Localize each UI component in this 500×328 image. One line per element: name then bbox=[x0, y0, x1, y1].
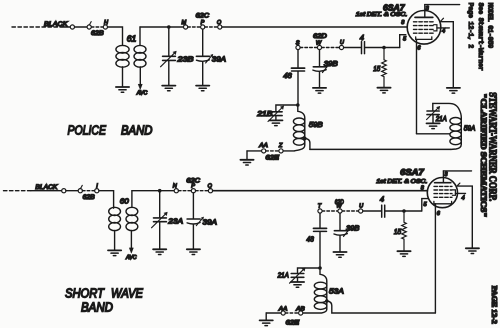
svg-text:U: U bbox=[359, 203, 364, 209]
wire: 53A tap to pin 6 bus bbox=[327, 301, 436, 313]
wire bbox=[75, 26, 88, 28]
switch 62D contact U bbox=[359, 203, 365, 213]
svg-text:21A: 21A bbox=[435, 114, 447, 123]
switch 62C contact P bbox=[191, 184, 195, 193]
wire: dashed M-P bbox=[188, 26, 201, 28]
svg-text:6: 6 bbox=[417, 45, 421, 51]
ground (62E) bbox=[240, 151, 253, 165]
page number PAGE 12-2 (rotated) bbox=[490, 286, 499, 324]
capacitor 4 bbox=[360, 33, 365, 53]
svg-text:BLACK: BLACK bbox=[35, 184, 58, 191]
wire: antenna lead-in (dashed) bbox=[12, 26, 62, 28]
svg-text:21B: 21B bbox=[256, 109, 272, 118]
ground (62E short wave) bbox=[260, 313, 273, 326]
pin 4 stub bbox=[437, 28, 449, 35]
switch 62C contact O bbox=[217, 20, 222, 29]
ground (pin 1) bbox=[447, 88, 460, 93]
wire: antenna lead-in (dashed) bbox=[4, 190, 31, 192]
svg-text:See Stewart-Warner: See Stewart-Warner bbox=[477, 3, 484, 71]
label 62D bbox=[313, 34, 327, 40]
wire: ground to AA bbox=[266, 312, 281, 314]
svg-text:4: 4 bbox=[462, 195, 465, 201]
wire: antenna solid segment bbox=[62, 26, 70, 28]
node: junction 23B bbox=[167, 25, 171, 29]
node: tap on 59B bbox=[303, 137, 307, 141]
label 62E bbox=[286, 320, 301, 326]
svg-text:BLACK: BLACK bbox=[44, 21, 68, 28]
wire: secondary top to switch M bbox=[140, 26, 184, 28]
ground (23A) bbox=[153, 249, 166, 254]
svg-text:62C: 62C bbox=[196, 13, 210, 19]
wire: dashed S-W bbox=[300, 47, 317, 49]
svg-text:BAND: BAND bbox=[121, 124, 153, 138]
wire: oscillator bus 59B tap to 59A bottom bbox=[310, 148, 451, 150]
coil 60 primary bbox=[109, 207, 121, 250]
svg-text:P: P bbox=[201, 20, 205, 26]
label 6SA7 bbox=[400, 167, 425, 177]
svg-text:4: 4 bbox=[442, 29, 445, 35]
pin 3 label and wire bbox=[443, 171, 471, 178]
coil 59A bbox=[450, 118, 475, 150]
svg-text:4: 4 bbox=[360, 33, 364, 42]
wire: pin 5 connection bbox=[422, 199, 429, 211]
svg-text:WAVE: WAVE bbox=[111, 286, 144, 300]
wire: Z to 59B bottom bbox=[283, 150, 294, 152]
label 1st DET & OSC bbox=[356, 12, 408, 18]
wire: dashed W-U bbox=[342, 210, 359, 212]
svg-text:S: S bbox=[296, 40, 300, 46]
switch 62E contact AA bbox=[278, 307, 288, 316]
wire: dashed N-P bbox=[178, 190, 191, 192]
wire bbox=[66, 190, 78, 192]
switch 62B contact J bbox=[87, 22, 91, 29]
switch 62C contact N bbox=[173, 183, 179, 192]
wire: junction to 21B bbox=[276, 105, 298, 111]
capacitor 21B (variable) bbox=[256, 106, 284, 122]
svg-text:62E: 62E bbox=[286, 320, 301, 326]
label 1st DET & OSC bbox=[376, 179, 427, 185]
ground (15) bbox=[377, 88, 390, 93]
svg-text:53A: 53A bbox=[329, 287, 344, 296]
node: junction 48/21A/53A bbox=[318, 266, 322, 270]
wire: capacitor 4 to pin 5 riser bbox=[365, 47, 400, 49]
svg-text:AB: AB bbox=[295, 307, 305, 313]
note Page 12-1, 2 (rotated) bbox=[467, 3, 474, 49]
wire: dashed J-I bbox=[82, 190, 94, 192]
label POLICE BAND bbox=[68, 124, 153, 138]
label BLACK bbox=[35, 184, 58, 191]
switch 62E contact AB bbox=[295, 307, 305, 316]
svg-text:H: H bbox=[104, 20, 109, 26]
svg-text:15: 15 bbox=[394, 227, 402, 236]
switch 62E contact AA bbox=[258, 143, 268, 153]
capacitor 21A (variable) bbox=[427, 103, 462, 122]
svg-text:59A: 59A bbox=[464, 124, 476, 133]
wire: 59B tap down to long bus bbox=[305, 138, 310, 149]
switch 62D contact U bbox=[339, 40, 345, 50]
svg-text:21A: 21A bbox=[277, 270, 289, 279]
switch 62B contact I bbox=[95, 183, 99, 192]
coil 61 primary bbox=[116, 45, 129, 86]
resistor 15 bbox=[373, 48, 386, 88]
svg-text:MODEL 01-859: MODEL 01-859 bbox=[487, 3, 494, 49]
svg-text:AVC: AVC bbox=[136, 91, 148, 97]
svg-text:6: 6 bbox=[437, 211, 441, 217]
svg-text:23B: 23B bbox=[176, 55, 193, 64]
label BLACK bbox=[44, 21, 68, 28]
label 62C bbox=[186, 179, 200, 185]
label SHORT WAVE BAND bbox=[65, 286, 144, 314]
wire: U to capacitor 4 bbox=[344, 47, 361, 49]
capacitor 48 bbox=[306, 213, 326, 268]
svg-text:Q: Q bbox=[208, 183, 213, 189]
svg-text:5: 5 bbox=[403, 36, 407, 42]
capacitor 4 bbox=[380, 195, 385, 218]
node: junction 23A bbox=[158, 189, 162, 193]
label 60 bbox=[120, 197, 130, 206]
coil 53A bbox=[303, 268, 344, 313]
capacitor 23B (variable) bbox=[161, 27, 194, 85]
pin 3 label and wire bbox=[425, 5, 460, 12]
ground (23B) bbox=[162, 86, 175, 91]
svg-text:62D: 62D bbox=[313, 34, 327, 40]
pin 5 label bbox=[424, 202, 428, 208]
op tube 6SA7 (police) bbox=[407, 5, 441, 45]
wire: dashed P-O bbox=[205, 26, 218, 28]
switch 62D contact W bbox=[336, 204, 342, 213]
svg-text:62D: 62D bbox=[335, 200, 345, 206]
wire: pin 6 to 59A tap bbox=[417, 133, 450, 135]
wire: O to tube pin 8 bbox=[222, 26, 407, 28]
ground (21A) bbox=[427, 123, 440, 128]
svg-text:AA: AA bbox=[258, 143, 268, 149]
switch 62C contact M bbox=[182, 20, 188, 29]
wire I to coil 60 bbox=[99, 191, 114, 209]
resistor 15 (short wave) bbox=[394, 211, 406, 251]
wire: Q to tube pin 8 bbox=[213, 190, 428, 192]
wire: dashed P-Q bbox=[196, 190, 209, 192]
label 62D bbox=[335, 200, 345, 206]
svg-text:62B: 62B bbox=[91, 31, 104, 37]
svg-text:SHORT: SHORT bbox=[65, 286, 105, 300]
label 62E bbox=[266, 155, 281, 161]
wire: dashed W-U bbox=[322, 47, 340, 49]
svg-text:8: 8 bbox=[401, 20, 405, 26]
svg-text:O: O bbox=[217, 20, 222, 26]
label 6SA7 bbox=[383, 3, 406, 13]
capacitor 39B (trimmer) bbox=[313, 50, 338, 88]
label 62B bbox=[83, 195, 95, 201]
svg-text:Z: Z bbox=[278, 143, 283, 149]
svg-text:W: W bbox=[316, 40, 322, 46]
ground (21A short wave) bbox=[291, 282, 304, 287]
svg-text:POLICE: POLICE bbox=[68, 124, 107, 138]
svg-text:61: 61 bbox=[127, 34, 137, 43]
svg-text:1st DET. & OSC.: 1st DET. & OSC. bbox=[356, 12, 408, 18]
node: junction 48/21B/59B bbox=[296, 103, 300, 107]
wire: dashed AA-Z bbox=[266, 150, 279, 152]
coil 59B bbox=[293, 105, 322, 151]
wire: capacitor 4 to pin 5 riser bbox=[385, 210, 422, 212]
switch 62B contact H bbox=[103, 20, 109, 29]
svg-text:60: 60 bbox=[120, 197, 130, 206]
capacitor 39A (trimmer) bbox=[187, 193, 217, 249]
ground (pin 1 short wave) bbox=[466, 248, 479, 253]
switch 62C contact Q bbox=[208, 183, 213, 192]
ground (39A) bbox=[187, 249, 200, 254]
title CLARIFIED SCHEMATICS (rotated) bbox=[479, 93, 488, 217]
switch 62B contact J bbox=[78, 185, 82, 192]
pin 8 label bbox=[421, 186, 425, 192]
wire: dashed AA-AB bbox=[285, 312, 298, 314]
svg-text:BAND: BAND bbox=[81, 301, 113, 315]
svg-text:39A: 39A bbox=[212, 55, 226, 64]
wire H to coil 61 bbox=[108, 27, 123, 45]
svg-text:Page 12-1, 2: Page 12-1, 2 bbox=[467, 3, 474, 49]
svg-text:M: M bbox=[182, 20, 187, 26]
note MODEL 01-859 (rotated) bbox=[487, 3, 494, 49]
wire: secondary top to switch N bbox=[132, 190, 174, 192]
ground (coil 60 primary) bbox=[108, 250, 121, 255]
svg-text:5: 5 bbox=[424, 202, 428, 208]
wire: ground to AA bbox=[247, 150, 262, 152]
wire: U to capacitor 4 bbox=[363, 210, 381, 212]
svg-text:62C: 62C bbox=[186, 179, 200, 185]
terminal antenna bbox=[70, 25, 74, 29]
ground (15 short wave) bbox=[397, 251, 410, 256]
capacitor 48 bbox=[283, 50, 304, 105]
label 61 bbox=[127, 34, 137, 43]
ground (coil 61 primary) bbox=[116, 87, 129, 92]
label 62C bbox=[196, 13, 210, 19]
svg-text:6SA7: 6SA7 bbox=[383, 3, 406, 13]
ground (39B short wave) bbox=[333, 252, 346, 257]
node: junction resistor 15 bbox=[382, 46, 386, 50]
pin 5 label bbox=[403, 36, 407, 42]
title STEWART-WARNER CORP. (rotated) bbox=[486, 92, 497, 201]
wire: junction to 21A bbox=[298, 268, 321, 273]
coil 61 secondary bbox=[134, 27, 146, 67]
svg-text:23A: 23A bbox=[167, 216, 183, 225]
svg-text:"CLARIFIED SCHEMATICS": "CLARIFIED SCHEMATICS" bbox=[479, 93, 488, 217]
wire: antenna solid segment bbox=[31, 190, 62, 192]
pin 1 tick and wire to ground bbox=[457, 183, 472, 248]
pin 8 label bbox=[401, 20, 405, 26]
svg-text:AA: AA bbox=[278, 307, 288, 313]
wire: dashed J-H bbox=[91, 26, 103, 28]
svg-text:59B: 59B bbox=[309, 120, 323, 129]
note See Stewart-Warner (rotated) bbox=[477, 3, 484, 71]
svg-text:4: 4 bbox=[380, 195, 384, 204]
pin 6 label and wire down bbox=[435, 204, 440, 313]
svg-text:48: 48 bbox=[306, 234, 314, 243]
svg-text:3: 3 bbox=[444, 172, 448, 178]
svg-text:AVC: AVC bbox=[125, 255, 137, 261]
svg-text:39A: 39A bbox=[203, 217, 218, 226]
svg-text:6SA7: 6SA7 bbox=[400, 167, 425, 177]
svg-text:15: 15 bbox=[373, 64, 381, 73]
pin 1 tick and wire to ground bbox=[441, 18, 453, 87]
svg-text:62B: 62B bbox=[83, 195, 95, 201]
switch 62D contact W bbox=[316, 40, 322, 49]
op tube 6SA7 (short wave) bbox=[427, 171, 457, 208]
switch 62C contact P bbox=[201, 20, 205, 29]
capacitor 23A (variable) bbox=[152, 191, 184, 249]
AVC arrow bbox=[125, 231, 137, 262]
node: junction resistor 15 bbox=[402, 209, 406, 213]
switch 62D contact T bbox=[318, 204, 322, 213]
svg-text:48: 48 bbox=[283, 71, 292, 80]
switch 62D contact S bbox=[296, 40, 300, 49]
svg-text:T: T bbox=[318, 204, 322, 210]
svg-text:62E: 62E bbox=[266, 155, 281, 161]
pin 4 stub bbox=[455, 193, 465, 201]
node: tap on 53A bbox=[325, 299, 329, 303]
wire: pin 5 connection bbox=[400, 35, 406, 48]
svg-text:PAGE 12-2: PAGE 12-2 bbox=[490, 286, 499, 324]
switch 62E contact Z bbox=[278, 143, 283, 153]
svg-text:39B: 39B bbox=[324, 59, 338, 68]
label 62B bbox=[91, 31, 104, 37]
ground (39B) bbox=[313, 88, 326, 93]
AVC arrow bbox=[136, 67, 148, 97]
wire: dashed T-W bbox=[322, 210, 338, 212]
ground (21B) bbox=[269, 120, 282, 125]
svg-text:39B: 39B bbox=[346, 224, 360, 233]
coil 60 secondary bbox=[126, 191, 138, 231]
svg-text:U: U bbox=[340, 40, 345, 46]
capacitor 39B (trimmer) bbox=[334, 213, 360, 251]
svg-text:1st DET. & OSC.: 1st DET. & OSC. bbox=[376, 179, 427, 185]
ground (39A) bbox=[196, 86, 209, 91]
capacitor 39A (trimmer) bbox=[196, 29, 226, 85]
capacitor 21A (variable) bbox=[277, 268, 306, 284]
terminal antenna bbox=[62, 189, 66, 193]
pin 6 label and wire down bbox=[417, 39, 422, 133]
